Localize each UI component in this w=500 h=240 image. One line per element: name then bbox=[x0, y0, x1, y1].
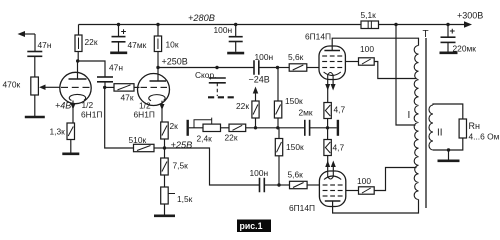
wire cathode V3 to 4,7 bbox=[327, 156, 329, 172]
ground sideways (cathodes) bbox=[337, 120, 339, 136]
svg-text:+: + bbox=[121, 27, 127, 38]
wire bbox=[104, 82, 106, 88]
node rail/100н bbox=[234, 23, 237, 26]
svg-text:100н: 100н bbox=[250, 168, 269, 178]
capacitor 47мк electrolytic bbox=[112, 37, 126, 42]
svg-text:47н: 47н bbox=[38, 40, 52, 50]
ground (47мк) bbox=[110, 51, 127, 54]
wire +300В to primary center tap bbox=[396, 25, 416, 126]
capacitor 100н (rail decoupling) bbox=[229, 37, 243, 42]
svg-text:22к: 22к bbox=[85, 37, 98, 47]
svg-text:100н: 100н bbox=[214, 25, 233, 35]
svg-text:7,5к: 7,5к bbox=[173, 161, 189, 171]
wire bbox=[307, 67, 319, 69]
resistor 22к (anode load V1a) bbox=[75, 35, 82, 52]
screen grid V3 (dashed) bbox=[323, 190, 343, 192]
capacitor 100н (coupling, top) bbox=[254, 60, 259, 75]
svg-text:150к: 150к bbox=[285, 96, 303, 106]
wire to volume pot bbox=[34, 56, 36, 77]
wire ground to trimmer bbox=[189, 127, 203, 129]
wire bbox=[154, 147, 165, 149]
node rail/220мк bbox=[446, 23, 449, 26]
cathode V1a (arc) bbox=[69, 94, 85, 100]
node +250В bbox=[156, 66, 159, 69]
svg-text:1,5к: 1,5к bbox=[177, 194, 193, 204]
wire node grid V1b down to 510к bbox=[105, 87, 134, 148]
svg-text:2мк: 2мк bbox=[299, 108, 313, 118]
caption рис.1 bbox=[237, 220, 271, 233]
cathode V2 (arc) bbox=[324, 72, 341, 76]
node rail/47мк bbox=[117, 23, 120, 26]
capacitor 47н (coupling) bbox=[97, 77, 113, 82]
svg-text:2,4к: 2,4к bbox=[197, 134, 213, 144]
wire rail to 47мк bbox=[118, 25, 120, 37]
svg-text:47н: 47н bbox=[109, 63, 123, 73]
node grid V1b bbox=[103, 86, 106, 89]
wire bbox=[307, 184, 319, 186]
wire bbox=[161, 101, 163, 122]
resistor 47к (grid stopper V1b) bbox=[114, 84, 134, 91]
svg-text:10к: 10к bbox=[166, 40, 179, 50]
heater V3 bbox=[328, 171, 334, 179]
wire bbox=[164, 139, 166, 148]
wire bbox=[264, 184, 279, 186]
svg-text:22к: 22к bbox=[236, 101, 249, 111]
input arrow (signal input) bbox=[25, 33, 35, 35]
capacitor Скор (optional, dashed) bbox=[209, 78, 226, 83]
resistor 5,6к (grid stopper top) bbox=[289, 64, 307, 71]
wire bbox=[448, 150, 450, 160]
svg-text:−24В: −24В bbox=[249, 75, 270, 85]
svg-text:47к: 47к bbox=[121, 93, 134, 103]
node rail/center-tap bbox=[394, 23, 397, 26]
wire +25В tap to bottom 100н bbox=[165, 148, 260, 185]
wire 10к to anode V1b bbox=[157, 52, 159, 82]
wire bbox=[279, 184, 290, 186]
svg-text:100: 100 bbox=[360, 44, 374, 54]
svg-text:Rн: Rн bbox=[469, 121, 480, 131]
wire bbox=[259, 67, 278, 69]
svg-text:рис.1: рис.1 bbox=[240, 221, 263, 231]
svg-text:6П14П: 6П14П bbox=[289, 203, 315, 213]
svg-text:I: I bbox=[408, 110, 411, 121]
suppressor grid V3 (dashed) bbox=[323, 195, 343, 197]
wire screen V2 to UL tap bbox=[374, 62, 416, 79]
wire bbox=[278, 156, 280, 185]
node cathodes bbox=[326, 126, 329, 129]
node secondary ground bbox=[447, 148, 450, 151]
anode bar V3 bbox=[325, 200, 341, 202]
resistor 4,7 (cathode V2) bbox=[324, 103, 331, 119]
svg-text:4,7: 4,7 bbox=[333, 143, 345, 153]
grid V1a (dashed) bbox=[61, 86, 90, 88]
anode bar V2 bbox=[324, 50, 340, 52]
svg-text:+250В: +250В bbox=[162, 57, 188, 67]
control grid V2 (dashed) bbox=[322, 67, 342, 69]
potentiometer 470к bbox=[31, 77, 39, 95]
svg-text:100н: 100н bbox=[255, 52, 274, 62]
ground (1,3к) bbox=[62, 153, 79, 156]
wire bbox=[164, 204, 166, 215]
svg-text:1,3к: 1,3к bbox=[50, 127, 66, 137]
wire +250В to Скор node bbox=[158, 67, 217, 69]
wire bbox=[134, 86, 140, 88]
transformer T secondary winding II bbox=[429, 105, 433, 150]
svg-text:5,1к: 5,1к bbox=[361, 10, 377, 20]
svg-text:1/2: 1/2 bbox=[82, 100, 94, 110]
wire bbox=[447, 42, 449, 51]
wire anode lead V1a bbox=[77, 61, 79, 79]
grid V1b (dashed) bbox=[141, 86, 168, 88]
transformer core bbox=[425, 38, 427, 208]
wire secondary top to Rн bbox=[433, 104, 463, 119]
+280В / +300В supply rail bbox=[79, 24, 467, 26]
wire bias row to 2мк bbox=[246, 127, 305, 129]
svg-text:510к: 510к bbox=[129, 135, 147, 145]
resistor 22к (bias feed) bbox=[252, 101, 259, 118]
transformer T primary winding I bbox=[414, 46, 418, 200]
anode bar V1b bbox=[150, 80, 167, 82]
svg-text:6Н1П: 6Н1П bbox=[134, 110, 155, 120]
resistor 7,5к bbox=[161, 158, 169, 175]
wire bbox=[346, 190, 359, 192]
triode U1a 1/2 6Н1П bbox=[60, 72, 91, 103]
resistor R3 1,3к (cathode V1a) bbox=[67, 123, 75, 140]
wire Скор to 100н bbox=[217, 67, 254, 69]
wire bbox=[332, 167, 334, 172]
wire rail to 10к bbox=[157, 25, 159, 37]
wire bbox=[221, 127, 230, 129]
svg-text:II: II bbox=[437, 128, 443, 139]
node +25В bbox=[163, 146, 166, 149]
suppressor grid V2 (dashed) bbox=[322, 55, 342, 57]
wire grid node to 150к bbox=[277, 68, 279, 102]
svg-text:100: 100 bbox=[357, 176, 371, 186]
svg-text:150к: 150к bbox=[286, 142, 304, 152]
ground (pot) bbox=[25, 116, 45, 119]
wire bbox=[118, 42, 120, 52]
resistor 22к (bias divider) bbox=[229, 124, 246, 131]
node rail/10к bbox=[156, 23, 159, 26]
resistor 150к (grid leak bottom) bbox=[275, 139, 282, 156]
wire 2мк to cathode node bbox=[310, 127, 337, 129]
node anode V1a bbox=[76, 59, 79, 62]
ground (100н) bbox=[227, 52, 244, 55]
wire anode V2 to primary top bbox=[332, 38, 418, 50]
node grid drive top bbox=[276, 66, 279, 69]
wire bias row to bottom 150к bbox=[278, 128, 280, 139]
svg-text:47мк: 47мк bbox=[128, 40, 147, 50]
pot wiper arrow bbox=[44, 86, 60, 88]
screen grid V2 (dashed) bbox=[322, 61, 342, 63]
svg-text:4...6 Ом: 4...6 Ом bbox=[469, 132, 500, 142]
wire bbox=[278, 67, 290, 69]
capacitor 100н (coupling, bottom) bbox=[260, 178, 265, 193]
ground sideways (bias divider) bbox=[186, 120, 188, 136]
pentode V2 (top) 6П14П bbox=[319, 46, 345, 80]
resistor Rн (load) bbox=[459, 119, 466, 138]
svg-text:5,6к: 5,6к bbox=[288, 170, 304, 180]
dashed ground (Скор) bbox=[208, 96, 235, 98]
capacitor 47н (input) bbox=[27, 52, 42, 57]
cathode V3 (arc) bbox=[324, 176, 341, 180]
svg-text:22к: 22к bbox=[225, 133, 238, 143]
wire bbox=[327, 119, 329, 128]
wire bbox=[164, 148, 166, 158]
resistor 150к (grid leak top) bbox=[274, 101, 281, 118]
resistor 5,1к (rail dropper) bbox=[361, 21, 379, 29]
svg-text:6П14П: 6П14П bbox=[305, 32, 331, 42]
heater V2 bbox=[328, 73, 333, 80]
resistor 2к (cathode V1b) bbox=[161, 122, 169, 139]
wire bbox=[255, 118, 257, 128]
wire bbox=[255, 93, 257, 101]
ground (1,5к) bbox=[154, 215, 175, 218]
pentode V3 (bottom) 6П14П bbox=[319, 171, 345, 207]
wire anode V1a to 47н bbox=[78, 61, 105, 77]
capacitor 2мк (bias bypass) bbox=[305, 120, 310, 136]
node Скор bbox=[215, 66, 218, 69]
capacitor 220мк electrolytic bbox=[441, 37, 456, 42]
svg-text:470к: 470к bbox=[3, 80, 21, 90]
wire bbox=[332, 80, 334, 85]
node bias row / 150к bbox=[276, 126, 279, 129]
wire Rн bottom to secondary bbox=[433, 138, 463, 150]
wire bbox=[164, 175, 166, 187]
anode bar V1a bbox=[69, 78, 87, 80]
wire pot to ground bbox=[34, 95, 36, 116]
wire cathode V2 to 4,7 bbox=[327, 80, 329, 103]
wire rail to 22к bbox=[78, 25, 80, 36]
cathode V1b (arc) bbox=[149, 95, 165, 101]
wire bbox=[327, 128, 329, 140]
wire 1,3к to ground bbox=[70, 140, 72, 153]
svg-text:2к: 2к bbox=[170, 121, 179, 131]
triode U1b 1/2 6Н1П bbox=[138, 74, 170, 106]
wire screen V3 to UL tap bbox=[374, 168, 416, 191]
resistor 4,7 (cathode V3) bbox=[324, 140, 331, 156]
svg-text:+: + bbox=[450, 26, 456, 37]
wire bbox=[105, 86, 114, 88]
svg-text:5,6к: 5,6к bbox=[288, 52, 304, 62]
svg-text:+4В: +4В bbox=[55, 101, 71, 111]
control grid V3 (dashed) bbox=[323, 184, 343, 186]
node grid drive bottom bbox=[277, 183, 280, 186]
wire anode V3 to primary bottom bbox=[333, 200, 419, 214]
wire 22к to anode node bbox=[77, 52, 79, 62]
svg-text:+280В: +280В bbox=[188, 13, 215, 23]
svg-text:+300В: +300В bbox=[457, 11, 483, 21]
ground (220мк) bbox=[440, 51, 458, 54]
resistor 5,6к (grid stopper bottom) bbox=[290, 181, 308, 188]
resistor 10к (anode load V1b) bbox=[154, 36, 161, 52]
wire bbox=[277, 118, 279, 128]
svg-text:4,7: 4,7 bbox=[334, 105, 346, 115]
resistor 1,5к bbox=[161, 187, 169, 204]
trimmer 2,4к (bias adjust) bbox=[194, 118, 221, 132]
wire bbox=[345, 61, 358, 63]
wire bbox=[447, 25, 449, 38]
wire bbox=[72, 101, 74, 124]
wire input down bbox=[34, 34, 36, 51]
svg-text:6Н1П: 6Н1П bbox=[81, 110, 102, 120]
node bias row / 22к bbox=[254, 126, 257, 129]
wire bbox=[235, 42, 237, 52]
wire rail to 100н bbox=[235, 25, 237, 37]
ground (secondary) bbox=[438, 160, 460, 163]
